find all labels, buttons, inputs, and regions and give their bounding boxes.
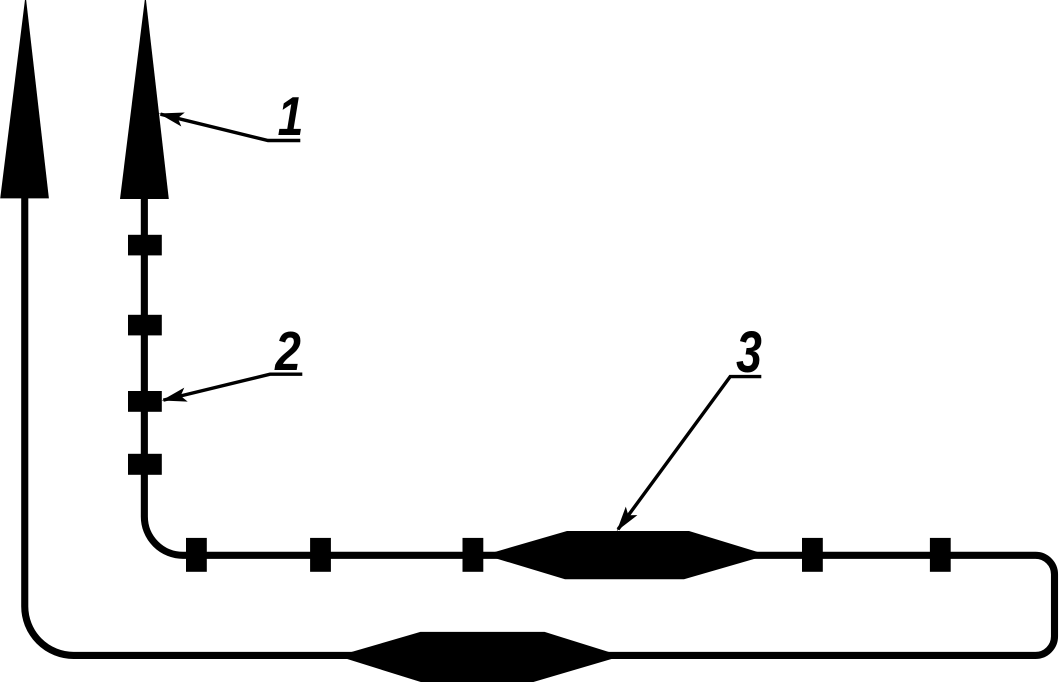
label 1 <box>278 85 304 146</box>
insulator bead H2 on top run <box>310 538 331 572</box>
leader line 1 <box>161 114 301 140</box>
leader line 3 <box>618 377 761 530</box>
insulator bead V3 on inner riser <box>128 391 162 412</box>
insulator bead V2 on inner riser <box>128 315 162 336</box>
coupling lens on top run (item 3) <box>485 531 768 579</box>
label 3 <box>736 320 762 386</box>
svg-text:1: 1 <box>278 85 304 146</box>
leader line 2 <box>163 374 302 400</box>
insulator bead V1 on inner riser <box>128 235 162 256</box>
arrow tip right (line end symbol 1) <box>120 0 169 199</box>
arrow tip left (line end symbol 1) <box>0 0 49 198</box>
leader arrowhead 3 <box>617 507 638 531</box>
label 2 <box>274 320 301 381</box>
insulator bead H1 on top run <box>186 538 207 572</box>
insulator bead H5 on top run <box>930 538 951 572</box>
insulator bead V4 on inner riser <box>128 454 162 475</box>
insulator bead H3 on top run <box>463 538 484 572</box>
insulator bead H4 on top run <box>802 538 823 572</box>
coupling lens on bottom run <box>338 632 622 682</box>
leader arrowhead 2 <box>162 388 188 402</box>
wire: main cable route (left riser, bottom run, right U-turn, top run, inner riser) <box>25 190 1055 655</box>
leader arrowhead 1 <box>159 113 185 127</box>
svg-text:3: 3 <box>736 320 762 386</box>
svg-text:2: 2 <box>274 320 301 381</box>
